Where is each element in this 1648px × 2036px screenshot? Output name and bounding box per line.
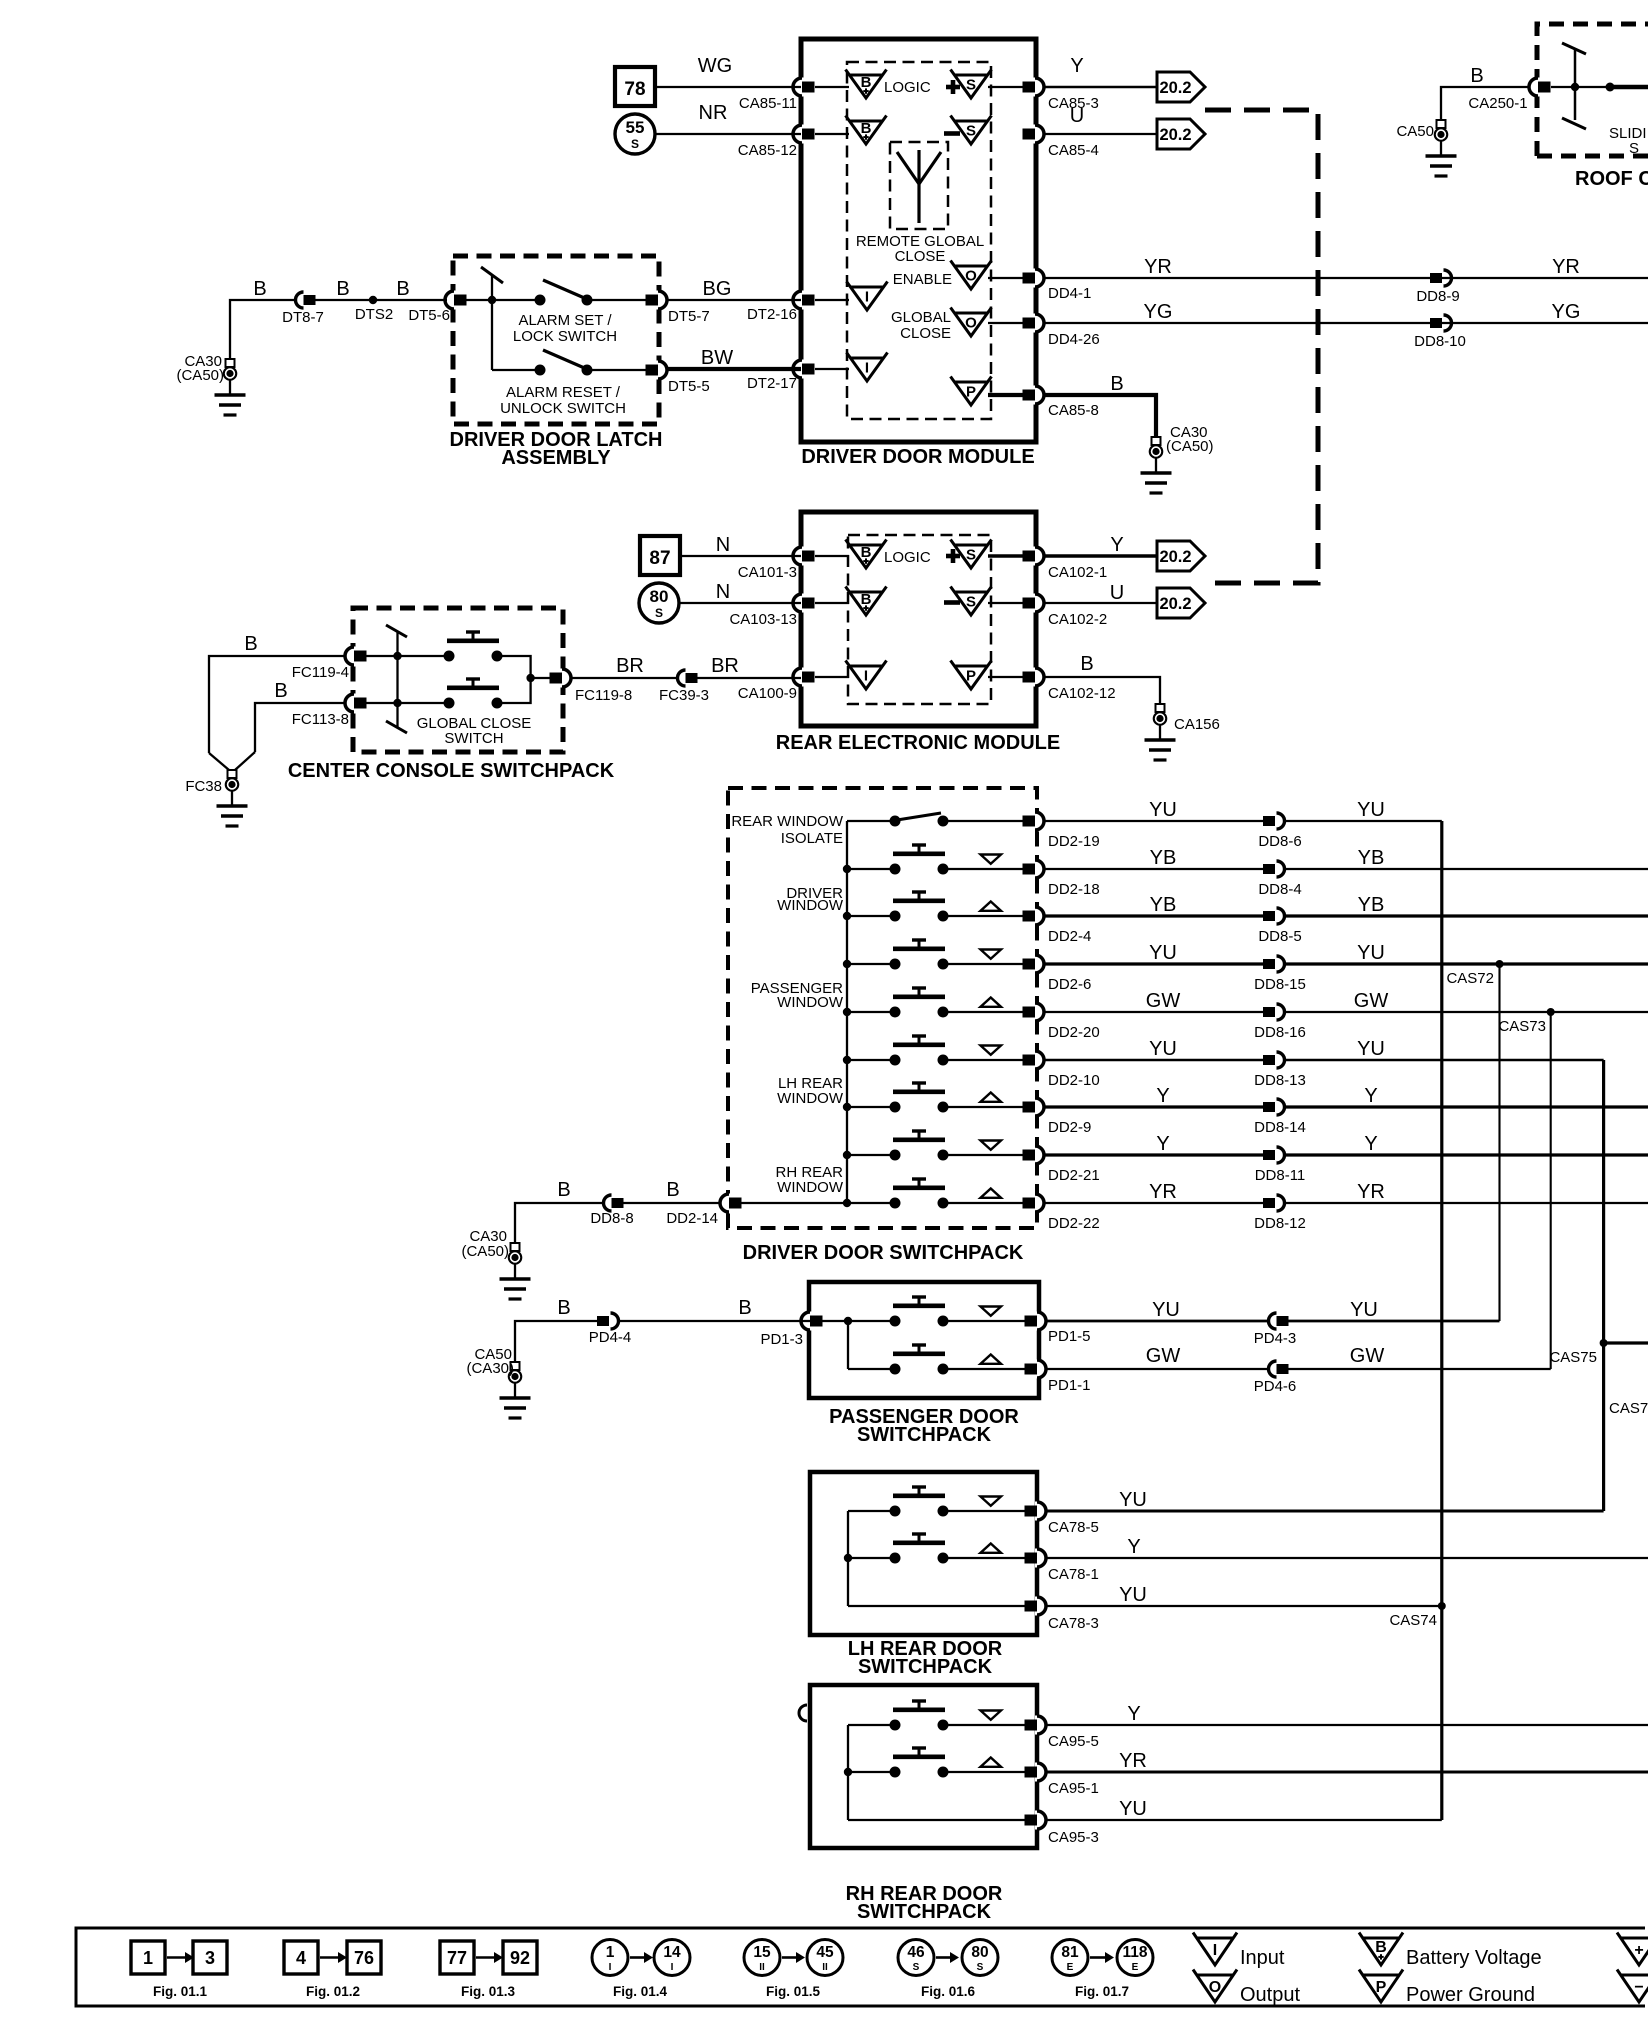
wire N (CA103-13) [679, 581, 801, 603]
window switch row 9 [847, 1179, 1001, 1209]
ground CA30 (CA50) top-left [176, 353, 245, 415]
svg-text:S: S [966, 76, 976, 93]
wire row 5 to pin [948, 1011, 1026, 1013]
svg-text:DD2-14: DD2-14 [666, 1210, 718, 1227]
svg-text:DD8-15: DD8-15 [1254, 976, 1306, 993]
connector DT8-7 [282, 292, 324, 326]
RH wire row2 [848, 1771, 1026, 1773]
label DRIVER WINDOW [777, 885, 844, 914]
svg-text:YU: YU [1357, 799, 1385, 821]
svg-text:CA78-5: CA78-5 [1048, 1519, 1099, 1536]
LH window down button [890, 1487, 1002, 1517]
battery voltage triangle B (CA85-11) [846, 70, 887, 99]
svg-text:Fig. 01.2: Fig. 01.2 [306, 1984, 360, 1999]
global close button 1 [444, 632, 503, 662]
legend fig 01.3 [440, 1941, 537, 1999]
svg-text:46: 46 [907, 1944, 925, 1961]
wire YG (DD4-26) [1045, 301, 1648, 323]
label LOGIC (REM) [884, 549, 931, 566]
svg-text:45: 45 [816, 1944, 834, 1961]
splice CAS73 [1498, 1008, 1554, 1035]
wire B (passenger feed) [515, 1297, 597, 1362]
label PASSENGER DOOR SWITCHPACK [829, 1406, 1019, 1446]
ground CA156 [1145, 704, 1220, 760]
LH wire row2 [848, 1557, 1026, 1559]
pin FC119-4 [292, 647, 367, 682]
svg-text:DTS2: DTS2 [355, 306, 393, 323]
roof switch blade bottom [1562, 118, 1586, 129]
svg-text:II: II [759, 1962, 765, 1973]
RH window down button [890, 1701, 1002, 1731]
label REMOTE GLOBAL CLOSE [856, 233, 984, 265]
svg-text:DT8-7: DT8-7 [282, 309, 324, 326]
svg-text:Input: Input [1240, 1947, 1285, 1969]
pin CA95-1 [1025, 1763, 1099, 1798]
wire YU row 1 cont [1284, 799, 1442, 821]
vertical CAS72 to passenger YU [1498, 964, 1500, 1321]
svg-text:GW: GW [1146, 1345, 1181, 1367]
rear window isolate switch [847, 813, 949, 827]
svg-text:CA250-1: CA250-1 [1468, 95, 1527, 112]
svg-text:DD2-4: DD2-4 [1048, 928, 1091, 945]
svg-text:DD2-6: DD2-6 [1048, 976, 1091, 993]
pin DD2-18 [1023, 860, 1100, 899]
svg-text:YB: YB [1150, 894, 1177, 916]
svg-text:DD2-22: DD2-22 [1048, 1215, 1100, 1232]
svg-text:B: B [253, 278, 266, 300]
svg-text:78: 78 [624, 79, 645, 100]
wire YR row 9 cont [1284, 1181, 1648, 1203]
latch actuator blade [481, 267, 503, 283]
svg-text:CLOSE: CLOSE [895, 248, 946, 265]
svg-text:YU: YU [1152, 1299, 1180, 1321]
passenger window down button [890, 1297, 1002, 1327]
connector PD4-4 [589, 1313, 632, 1346]
connector DD8-4 [1258, 861, 1301, 898]
svg-text:YB: YB [1150, 847, 1177, 869]
window switch row 8 [847, 1131, 1001, 1161]
wire label B (roof) [1470, 65, 1483, 87]
wire YU row 4 [1045, 942, 1263, 964]
wire B (CA102-12) [1045, 653, 1160, 704]
svg-text:S: S [1629, 140, 1640, 157]
svg-text:ISOLATE: ISOLATE [781, 830, 843, 847]
svg-text:CA156: CA156 [1174, 716, 1220, 733]
module REAR ELECTRONIC MODULE box [801, 512, 1036, 726]
svg-text:ALARM SET /: ALARM SET / [518, 312, 612, 329]
ground CA50 (CA30) [466, 1346, 530, 1418]
svg-text:O: O [1209, 1979, 1221, 1996]
svg-text:20.2: 20.2 [1159, 79, 1191, 97]
thick wire to page edge (roof) [1612, 85, 1648, 90]
cc wire row2 [365, 702, 449, 704]
pin DD2-19 [1023, 812, 1100, 851]
pin CA95-3 [1025, 1811, 1099, 1847]
wire BG [667, 278, 801, 300]
wire B to roof console [1441, 87, 1528, 120]
wire U to 20.2 (CA102-2) [1045, 582, 1157, 604]
wire B seg (DD8-8) [515, 1179, 602, 1243]
svg-text:Y: Y [1364, 1085, 1377, 1107]
connector DD8-14 [1254, 1099, 1306, 1136]
svg-text:DRIVER DOOR SWITCHPACK: DRIVER DOOR SWITCHPACK [743, 1242, 1024, 1264]
svg-text:I: I [609, 1962, 612, 1973]
connector DD8-13 [1254, 1052, 1306, 1089]
svg-text:−: − [1634, 1979, 1643, 1996]
svg-text:FC119-4: FC119-4 [292, 664, 349, 681]
svg-text:(CA30): (CA30) [466, 1360, 514, 1377]
svg-text:S: S [966, 122, 976, 139]
wire B segment 1 [230, 278, 294, 359]
bus junction row 5 [843, 1008, 851, 1016]
wire GW cont to CAS73 branch [1288, 1345, 1551, 1369]
REM signal triangle -S [944, 587, 992, 616]
wire BR segment 1 [572, 655, 676, 678]
svg-text:20.2: 20.2 [1159, 595, 1191, 613]
wire YR row 9 [1045, 1181, 1263, 1203]
svg-text:1: 1 [143, 1948, 153, 1968]
svg-text:FC113-8: FC113-8 [292, 711, 349, 728]
svg-text:CENTER CONSOLE SWITCHPACK: CENTER CONSOLE SWITCHPACK [288, 760, 615, 782]
ground FC38 [185, 770, 247, 826]
svg-text:UNLOCK SWITCH: UNLOCK SWITCH [500, 400, 626, 417]
pin DT2-16 [747, 291, 815, 324]
passenger bus [848, 1321, 895, 1369]
label SLIDING (clipped) [1609, 125, 1647, 157]
LH bus [844, 1511, 852, 1606]
svg-text:YU: YU [1357, 942, 1385, 964]
svg-text:P: P [1376, 1979, 1387, 1996]
wire Y (CA78-1) [1045, 1536, 1648, 1558]
svg-text:U: U [1110, 582, 1124, 604]
svg-text:BG: BG [703, 278, 732, 300]
wire Y row 8 cont [1284, 1133, 1648, 1155]
svg-text:CA95-3: CA95-3 [1048, 1829, 1099, 1846]
svg-text:4: 4 [296, 1948, 306, 1968]
svg-text:(CA50): (CA50) [1166, 438, 1214, 455]
svg-text:YU: YU [1357, 1038, 1385, 1060]
svg-text:E: E [1067, 1962, 1074, 1973]
svg-text:LOGIC: LOGIC [884, 549, 931, 566]
svg-text:YR: YR [1552, 256, 1580, 278]
wire Y to 20.2 (CA85-3) [1045, 55, 1157, 87]
wire YU row 4 cont [1284, 942, 1648, 964]
fuse box 87 [640, 536, 680, 575]
svg-text:15: 15 [753, 1944, 771, 1961]
global close button 2 [444, 679, 503, 709]
svg-text:DT5-7: DT5-7 [668, 308, 710, 325]
svg-text:CA85-12: CA85-12 [738, 142, 797, 159]
svg-text:GW: GW [1354, 990, 1389, 1012]
svg-text:YG: YG [1144, 301, 1173, 323]
svg-text:WINDOW: WINDOW [777, 994, 844, 1011]
legend box [76, 1928, 1645, 2006]
svg-text:B: B [666, 1179, 679, 1201]
svg-text:DD8-4: DD8-4 [1258, 881, 1301, 898]
svg-text:I: I [1213, 1942, 1217, 1959]
cc blade bottom [386, 721, 407, 733]
LH wire row3 [848, 1605, 1026, 1607]
splice CAS75 [1549, 1339, 1607, 1366]
connector DD8-9 [1416, 270, 1459, 305]
wire row 4 to pin [948, 963, 1026, 965]
bus junction row 4 [843, 960, 851, 968]
svg-text:N: N [716, 534, 730, 556]
roof switch blade top [1562, 43, 1586, 54]
connector DD8-6 [1258, 813, 1301, 850]
svg-text:SWITCHPACK: SWITCHPACK [857, 1424, 992, 1446]
splice DTS2 [355, 296, 393, 323]
module DRIVER DOOR SWITCHPACK dashed box [728, 788, 1037, 1228]
svg-text:B: B [1375, 1939, 1387, 1956]
pin CA85-11 [739, 78, 815, 113]
svg-text:CA100-9: CA100-9 [738, 685, 797, 702]
wire YU (CA78-3) to CAS74 [1045, 1584, 1442, 1606]
wire Y row 7 [1045, 1085, 1263, 1107]
pin DT5-6 [408, 291, 466, 325]
svg-text:B: B [557, 1179, 570, 1201]
battery voltage triangle B (CA85-12) [846, 116, 887, 145]
svg-text:WINDOW: WINDOW [777, 897, 844, 914]
wire GW row 5 cont [1284, 990, 1648, 1012]
svg-text:ROOF C: ROOF C [1575, 168, 1648, 190]
wire CAS75 to page edge [1604, 1341, 1648, 1344]
label REAR WINDOW ISOLATE [731, 813, 844, 847]
splice CAS72 [1446, 960, 1503, 987]
svg-text:BR: BR [616, 655, 644, 677]
pin CA85-12 [738, 125, 815, 160]
svg-text:Fig. 01.5: Fig. 01.5 [766, 1984, 821, 1999]
connector DD8-11 [1255, 1147, 1306, 1184]
svg-text:55: 55 [626, 118, 645, 137]
svg-text:FC39-3: FC39-3 [659, 687, 709, 704]
svg-text:I: I [671, 1962, 674, 1973]
connector CA250-1 at roof box edge [1468, 78, 1550, 113]
wire row 9 to pin [948, 1202, 1026, 1204]
svg-text:14: 14 [663, 1944, 681, 1961]
svg-text:PD1-5: PD1-5 [1048, 1328, 1091, 1345]
roof console dashed enclosure (partial, off-page right) [1537, 24, 1648, 156]
pin CA102-1 [1023, 547, 1108, 582]
node junction 2 (roof switch) [1606, 83, 1615, 92]
wire row 2 to pin [948, 868, 1026, 870]
cc collector wires [497, 656, 553, 703]
module CENTER CONSOLE SWITCHPACK dashed box [353, 608, 563, 752]
wire BR segment 2 [697, 655, 801, 678]
label GLOBAL CLOSE SWITCH [417, 715, 532, 747]
svg-text:YR: YR [1357, 1181, 1385, 1203]
connector DD8-5 [1258, 908, 1301, 945]
switch ALARM SET / LOCK SWITCH [513, 280, 648, 345]
pin FC113-8 [292, 694, 367, 729]
stub wires inside rear electronic module [815, 556, 1026, 677]
pin CA102-2 [1023, 594, 1108, 629]
wire YB row 3 cont [1284, 894, 1648, 916]
label PASSENGER WINDOW [751, 980, 844, 1011]
ground CA30 (CA50) switchpack [461, 1228, 530, 1299]
svg-text:S: S [913, 1962, 920, 1973]
bus junction row 6 [843, 1056, 851, 1064]
label DRIVER DOOR MODULE [801, 446, 1034, 468]
switchpack bus [846, 821, 848, 1203]
svg-text:SWITCHPACK: SWITCHPACK [857, 1901, 992, 1923]
page link arrow 20.2 (REM U) [1157, 588, 1205, 618]
svg-text:YB: YB [1358, 894, 1385, 916]
svg-text:LOGIC: LOGIC [884, 79, 931, 96]
svg-text:FC38: FC38 [185, 778, 222, 795]
svg-text:DT2-16: DT2-16 [747, 306, 797, 323]
pin DD2-21 [1023, 1146, 1100, 1185]
svg-text:YG: YG [1552, 301, 1581, 323]
window switch row 5 [847, 988, 1001, 1018]
window switch row 2 [847, 845, 1001, 875]
LH window up button [890, 1534, 1002, 1564]
legend fig 01.4 [592, 1940, 690, 2000]
module DRIVER DOOR MODULE box [801, 39, 1036, 442]
wire YU (CA95-3) to bus [1045, 1798, 1442, 1820]
RH wire row1b [948, 1724, 1026, 1726]
svg-text:B: B [1110, 373, 1123, 395]
legend fig 01.2 [284, 1941, 381, 1999]
svg-text:B: B [244, 633, 257, 655]
svg-text:DD2-19: DD2-19 [1048, 833, 1100, 850]
svg-text:DT5-5: DT5-5 [668, 378, 710, 395]
svg-text:S: S [966, 546, 976, 563]
svg-text:CA50: CA50 [1396, 123, 1434, 140]
pin PD1-1 [1025, 1360, 1091, 1395]
REM battery triangle B (CA101-3) [846, 540, 887, 569]
page link arrow 20.2 (REM Y) [1157, 541, 1205, 571]
node junction (roof switch) [1571, 83, 1579, 91]
svg-text:Fig. 01.4: Fig. 01.4 [613, 1984, 668, 1999]
pin CA78-5 [1025, 1502, 1099, 1537]
legend fig 01.5 [744, 1940, 843, 2000]
wire YU cont to CAS72 branch [1288, 1299, 1500, 1321]
svg-text:Y: Y [1127, 1703, 1140, 1725]
wire row 6 to pin [948, 1059, 1026, 1061]
svg-text:E: E [1132, 1962, 1139, 1973]
RH window up button [890, 1748, 1002, 1778]
svg-text:DRIVER DOOR MODULE: DRIVER DOOR MODULE [801, 446, 1034, 468]
wire DD2-14 to bus [741, 1202, 849, 1204]
svg-text:DD4-26: DD4-26 [1048, 331, 1100, 348]
connector DD8-12 [1254, 1195, 1306, 1232]
svg-text:GLOBAL: GLOBAL [891, 309, 951, 326]
wire B to PD1-3 [618, 1297, 811, 1321]
antenna symbol [897, 150, 941, 223]
pin CA85-8 [1023, 386, 1099, 420]
input triangle I (DT2-16) [847, 282, 888, 311]
legend fig 01.6 [898, 1940, 998, 2000]
LH wire row1b [948, 1510, 1026, 1512]
svg-text:S: S [977, 1962, 984, 1973]
signal triangle -S (CA85-4) [944, 116, 992, 145]
pin CA78-1 [1025, 1549, 1099, 1584]
wire row 7 to pin [948, 1106, 1026, 1108]
wire Y (CA95-5) [1045, 1703, 1648, 1725]
wire B (CA85-8) [1045, 373, 1156, 437]
legend minus symbol (clipped) [1617, 1970, 1648, 2003]
pin DD2-6 [1023, 955, 1092, 994]
RH bus [844, 1725, 852, 1820]
svg-text:YU: YU [1149, 799, 1177, 821]
svg-text:GW: GW [1350, 1345, 1385, 1367]
wire N (CA101-3) [680, 534, 801, 556]
REM signal triangle +S [946, 540, 992, 569]
wire B (FC119-4) [209, 633, 345, 753]
pin DD2-22 [1023, 1194, 1100, 1233]
svg-text:PD4-3: PD4-3 [1254, 1330, 1297, 1347]
svg-text:S: S [631, 137, 639, 151]
svg-text:CA85-4: CA85-4 [1048, 142, 1099, 159]
svg-text:CAS72: CAS72 [1446, 970, 1494, 987]
svg-text:B: B [738, 1297, 751, 1319]
svg-text:P: P [966, 667, 976, 684]
svg-text:PD1-1: PD1-1 [1048, 1377, 1091, 1394]
svg-text:ENABLE: ENABLE [893, 271, 952, 288]
svg-text:80: 80 [650, 587, 669, 606]
svg-text:DT2-17: DT2-17 [747, 375, 797, 392]
bus junction row 9 [843, 1199, 851, 1207]
svg-text:B: B [1470, 65, 1483, 87]
svg-text:YU: YU [1149, 942, 1177, 964]
svg-text:Y: Y [1364, 1133, 1377, 1155]
pass wire row1 [948, 1320, 1026, 1322]
svg-text:B: B [396, 278, 409, 300]
module PASSENGER DOOR SWITCHPACK box [809, 1282, 1039, 1398]
svg-text:LOCK SWITCH: LOCK SWITCH [513, 328, 617, 345]
REM power ground triangle P [951, 661, 992, 690]
pin DD4-1 [1023, 269, 1092, 303]
pin DD2-4 [1023, 907, 1092, 946]
svg-text:DD8-13: DD8-13 [1254, 1072, 1306, 1089]
connector DD8-8 [590, 1195, 633, 1227]
pin CA85-3 [1023, 78, 1099, 113]
vertical bus YU (row1) [1440, 821, 1443, 1820]
pin FC119-8 [550, 669, 633, 705]
svg-text:DD8-16: DD8-16 [1254, 1024, 1306, 1041]
legend fig 01.1 [131, 1941, 227, 1999]
legend output symbol [1193, 1970, 1300, 2007]
pin DD4-26 [1023, 314, 1100, 349]
svg-text:YU: YU [1350, 1299, 1378, 1321]
connector DD8-16 [1254, 1004, 1306, 1041]
connector DD8-15 [1254, 956, 1306, 993]
svg-text:FC119-8: FC119-8 [575, 687, 632, 704]
label RH REAR WINDOW [775, 1164, 843, 1196]
window switch row 4 [847, 940, 1001, 970]
wire YU row 6 cont [1284, 1038, 1604, 1060]
svg-text:20.2: 20.2 [1159, 548, 1191, 566]
svg-text:DD8-8: DD8-8 [590, 1210, 633, 1227]
svg-text:87: 87 [649, 548, 670, 569]
label LH REAR DOOR SWITCHPACK [848, 1638, 1003, 1678]
cc blade top [386, 625, 407, 637]
svg-text:118: 118 [1122, 1944, 1147, 1961]
pin CA78-3 [1025, 1597, 1099, 1633]
svg-text:NR: NR [699, 102, 728, 124]
svg-text:YR: YR [1149, 1181, 1177, 1203]
svg-text:Y: Y [1110, 534, 1123, 556]
wire row 3 to pin [948, 915, 1026, 917]
svg-text:DD8-10: DD8-10 [1414, 333, 1466, 350]
svg-text:DD2-21: DD2-21 [1048, 1167, 1100, 1184]
svg-text:3: 3 [205, 1948, 215, 1968]
svg-text:YU: YU [1119, 1489, 1147, 1511]
svg-text:I: I [865, 288, 869, 305]
svg-text:Y: Y [1070, 55, 1083, 77]
svg-text:DD2-9: DD2-9 [1048, 1119, 1091, 1136]
